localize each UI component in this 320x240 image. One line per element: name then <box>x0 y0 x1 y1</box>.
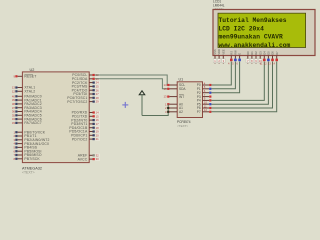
LCD pin RW (5) <box>232 50 237 66</box>
U1 left pin A1 (2) <box>165 106 183 110</box>
U2 left pin PB6/MISO (7) <box>13 153 41 157</box>
svg-text:D3: D3 <box>258 51 262 55</box>
U1 right pin P3 (7) <box>197 93 212 99</box>
svg-text:21: 21 <box>96 137 100 141</box>
U2 left pin PA3/ADC3 (37) <box>12 106 42 110</box>
U2 left pin PB3/AIN1/OC0 (4) <box>13 142 49 146</box>
U2 right pin PD1/TXD (15) <box>72 114 100 118</box>
U1 left pin A0 (1) <box>165 102 183 106</box>
svg-text:INT: INT <box>179 95 184 99</box>
wire P7-D7 <box>211 62 276 112</box>
svg-text:33: 33 <box>12 121 16 125</box>
U2 left pin RESET (9) <box>13 74 36 78</box>
LCD pin D1 (8) <box>250 51 254 64</box>
U1 right pin P4 (9) <box>197 97 212 103</box>
U2 left pin PA0/ADC0 (40) <box>12 94 42 98</box>
svg-text:D7: D7 <box>275 51 279 55</box>
svg-text:VDD: VDD <box>217 49 221 55</box>
origin marker <box>122 102 128 108</box>
svg-text:men99unakan CVAVR: men99unakan CVAVR <box>219 34 283 41</box>
U2 left pin PB7/SCK (8) <box>13 157 40 161</box>
U2 right pin PD2/INT0 (16) <box>71 118 100 122</box>
U2 left pin PA4/ADC4 (36) <box>12 110 42 114</box>
U1 left pin INT (13) <box>163 95 184 99</box>
U1 left pin A2 (3) <box>165 110 183 114</box>
svg-text:LCD I2C 20x4: LCD I2C 20x4 <box>219 25 265 32</box>
U2 right pin PD7/OC2 (21) <box>72 137 100 141</box>
svg-text:PA7/ADC7: PA7/ADC7 <box>24 121 41 125</box>
svg-text:12: 12 <box>204 108 208 112</box>
U2 left pin PA2/ADC2 (38) <box>12 102 42 106</box>
microcontroller U2 ATMEGA32 <box>22 68 89 175</box>
U2 right pin AREF (32) <box>78 153 100 157</box>
U2 right pin PC7/TOSC2 (29) <box>67 100 100 104</box>
LCD pin D5 (12) <box>264 51 271 66</box>
U2 right pin PC1/SDA (23) <box>72 77 100 81</box>
U2 left pin PA6/ADC6 (34) <box>12 117 42 121</box>
svg-text:RS: RS <box>229 51 233 55</box>
U2 right pin PD6/ICP1 (20) <box>71 133 100 137</box>
LCD pin D6 (13) <box>268 51 275 66</box>
U2 right pin PC4/TDO (26) <box>72 88 100 92</box>
svg-text:E: E <box>238 53 242 55</box>
LCD LCD1 LM044L <box>213 0 315 55</box>
svg-text:PB7/SCK: PB7/SCK <box>24 157 40 161</box>
svg-text:RW: RW <box>234 50 238 55</box>
svg-text:P7: P7 <box>197 110 201 114</box>
svg-text:A2: A2 <box>179 110 183 114</box>
U2 left pin PB2/AIN0/INT2 (3) <box>13 138 49 142</box>
LCD pin D2 (9) <box>254 51 258 64</box>
svg-text:D1: D1 <box>250 51 254 55</box>
U1 right pin P5 (10) <box>197 101 212 107</box>
U2 right pin PD4/OC1B (18) <box>69 126 100 130</box>
U1 right pin P1 (5) <box>197 85 212 91</box>
svg-text:<TEXT>: <TEXT> <box>177 124 188 128</box>
svg-text:VSS: VSS <box>213 49 217 54</box>
svg-text:U1: U1 <box>179 78 184 82</box>
U1 left pin SCL (14) <box>163 83 185 87</box>
svg-text:PD7/OC2: PD7/OC2 <box>72 137 88 141</box>
svg-text:12: 12 <box>12 89 16 93</box>
U2 left pin PB0/T0/XCK (1) <box>13 130 45 134</box>
LCD pin VEE (3) <box>221 49 225 63</box>
svg-text:www.anakkendali.com: www.anakkendali.com <box>219 42 291 49</box>
U2 left pin PA7/ADC7 (33) <box>12 121 42 125</box>
svg-text:D6: D6 <box>271 51 275 55</box>
U2 right pin PC2/TCK (24) <box>72 81 100 85</box>
svg-text:AVCC: AVCC <box>78 157 88 161</box>
LCD pin D0 (7) <box>246 51 250 64</box>
LCD pin D3 (10) <box>258 51 262 64</box>
U2 right pin PC0/SCL (22) <box>72 73 100 77</box>
svg-text:RESET: RESET <box>24 75 36 79</box>
U2 left pin XTAL1 (13) <box>12 86 35 90</box>
wire P1-RW <box>211 62 235 89</box>
U2 left pin PA1/ADC1 (39) <box>12 98 42 102</box>
svg-text:15: 15 <box>163 87 167 91</box>
svg-text:Tutorial Men9akses: Tutorial Men9akses <box>219 17 287 24</box>
U2 right pin PC5/TDI (27) <box>73 92 100 96</box>
LCD screen <box>218 13 306 47</box>
svg-text:30: 30 <box>96 157 100 161</box>
U2 right pin PD5/OC1A (19) <box>69 130 100 134</box>
wire P5-D5 <box>211 62 268 105</box>
svg-text:D0: D0 <box>246 51 250 55</box>
U1 right pin P2 (6) <box>197 89 212 95</box>
U2 left pin PA5/ADC5 (35) <box>12 113 42 117</box>
wire P0-RS <box>211 62 231 86</box>
junction A1 <box>167 107 169 109</box>
svg-text:PC7/TOSC2: PC7/TOSC2 <box>67 100 87 104</box>
U2 left pin XTAL2 (12) <box>12 89 35 93</box>
U2 left pin PB1/T1 (2) <box>13 134 36 138</box>
svg-text:<TEXT>: <TEXT> <box>22 171 35 175</box>
LCD pin E (6) <box>236 53 241 66</box>
power terminal VCC <box>139 91 145 116</box>
IO expander U1 PCF8574 <box>177 78 203 128</box>
junction A2 <box>167 111 169 113</box>
wire power to A2 bus <box>142 104 168 115</box>
LCD pin RS (4) <box>228 51 233 66</box>
svg-text:U2: U2 <box>30 68 35 72</box>
LCD pin D4 (11) <box>260 51 267 66</box>
svg-text:D5: D5 <box>267 51 271 55</box>
svg-text:D4: D4 <box>262 51 266 55</box>
LCD pin VDD (2) <box>217 49 221 64</box>
svg-text:XTAL2: XTAL2 <box>24 90 35 94</box>
svg-text:13: 13 <box>163 95 167 99</box>
wire P2-E <box>211 62 239 93</box>
U2 left pin PB4/SS (5) <box>13 146 37 150</box>
U2 right pin PD0/RXD (14) <box>72 111 100 115</box>
U1 left pin SDA (15) <box>163 87 186 91</box>
U2 right pin PD3/INT1 (17) <box>71 122 100 126</box>
wire PC0/SCL to U1 SCL <box>95 75 170 85</box>
U2 left pin PB5/MOSI (6) <box>13 149 41 153</box>
U1 right pin P0 (4) <box>197 81 212 87</box>
U2 right pin PC3/TMS (25) <box>72 85 100 89</box>
U2 right pin AVCC (30) <box>78 157 100 161</box>
svg-text:SDA: SDA <box>179 87 186 91</box>
wire P4-D4 <box>211 62 264 101</box>
U1 right pin P7 (12) <box>197 108 212 114</box>
svg-text:29: 29 <box>96 100 100 104</box>
wire P6-D6 <box>211 62 272 109</box>
svg-text:VEE: VEE <box>221 49 225 54</box>
svg-text:D2: D2 <box>254 51 258 55</box>
LCD pin D7 (14) <box>272 51 279 66</box>
LCD pin VSS (1) <box>213 49 217 63</box>
wire PC1/SDA to U1 SDA <box>95 79 170 89</box>
U1 right pin P6 (11) <box>197 104 212 110</box>
U2 right pin PC6/TOSC1 (28) <box>67 96 100 100</box>
